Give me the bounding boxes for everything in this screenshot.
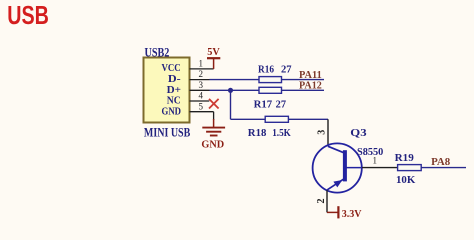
svg-text:GND: GND xyxy=(162,106,182,117)
svg-text:USB2: USB2 xyxy=(145,45,170,59)
svg-text:MINI USB: MINI USB xyxy=(144,125,190,139)
title USB xyxy=(7,0,49,30)
no-connect X on pin 4 xyxy=(209,99,219,109)
comment MINI USB xyxy=(144,125,190,139)
svg-text:S8550: S8550 xyxy=(357,147,383,158)
net label PA12 xyxy=(299,81,322,92)
pin 4 xyxy=(190,91,210,101)
resistor R18 xyxy=(248,116,292,139)
pin 2 xyxy=(190,69,210,79)
pin name NC xyxy=(167,96,181,107)
svg-text:5V: 5V xyxy=(207,47,220,58)
svg-text:2: 2 xyxy=(316,199,327,204)
wire R19 to PA8 xyxy=(421,167,466,169)
wire D- to R16 xyxy=(210,79,260,81)
resistor R19 xyxy=(395,153,422,186)
svg-text:R16: R16 xyxy=(258,65,274,76)
Q3 pin 2 (emitter lead) xyxy=(316,190,327,212)
svg-text:1.5K: 1.5K xyxy=(272,128,291,139)
svg-text:R17: R17 xyxy=(254,100,273,111)
designator Q3 xyxy=(350,127,367,139)
svg-text:PA12: PA12 xyxy=(299,81,322,92)
ground GND (connector pin 5) xyxy=(201,119,225,151)
wire R16 to PA11 xyxy=(282,79,325,81)
svg-text:10K: 10K xyxy=(396,175,416,186)
svg-text:1: 1 xyxy=(198,59,203,69)
junction on D+ xyxy=(228,88,233,93)
svg-text:3: 3 xyxy=(198,80,203,90)
pin 5 xyxy=(190,101,214,120)
pin name VCC xyxy=(162,63,181,74)
connector USB2 body xyxy=(144,58,190,123)
transistor Q3 xyxy=(313,143,362,192)
svg-text:R18: R18 xyxy=(248,128,267,139)
svg-text:R19: R19 xyxy=(395,153,414,164)
svg-text:USB: USB xyxy=(7,0,49,30)
pin name D+ xyxy=(167,85,182,96)
power 5V xyxy=(207,47,220,69)
svg-text:D+: D+ xyxy=(167,85,182,96)
svg-text:GND: GND xyxy=(201,140,224,151)
pin 1 xyxy=(190,59,214,69)
svg-text:2: 2 xyxy=(198,69,203,79)
svg-text:3.3V: 3.3V xyxy=(342,209,362,220)
svg-text:5: 5 xyxy=(198,101,203,111)
svg-text:27: 27 xyxy=(281,65,292,76)
pin name GND xyxy=(162,106,182,117)
wire R17 to PA12 xyxy=(282,89,325,91)
wire D+ to R17 xyxy=(210,89,260,91)
Q3 pin 1 (base lead) xyxy=(362,156,398,168)
Q3 pin 3 (collector lead) xyxy=(317,119,328,146)
wire R18 to Q3 collector xyxy=(288,118,328,120)
svg-text:D-: D- xyxy=(168,74,181,85)
svg-text:3: 3 xyxy=(317,130,328,135)
svg-text:PA11: PA11 xyxy=(299,70,322,81)
value S8550 xyxy=(357,147,383,158)
svg-text:NC: NC xyxy=(167,96,181,107)
pin 3 xyxy=(190,80,210,90)
svg-text:VCC: VCC xyxy=(162,63,181,74)
svg-text:PA8: PA8 xyxy=(431,157,450,168)
svg-text:Q3: Q3 xyxy=(350,127,367,139)
designator USB2 xyxy=(145,45,170,59)
wire junction down to R18 row xyxy=(231,90,266,119)
svg-text:1: 1 xyxy=(372,156,377,166)
resistor R17 xyxy=(254,87,287,110)
power 3.3V xyxy=(327,206,362,220)
svg-text:4: 4 xyxy=(198,91,203,101)
net label PA11 xyxy=(299,70,322,81)
pin name D- xyxy=(168,74,181,85)
svg-text:27: 27 xyxy=(276,100,286,111)
resistor R16 xyxy=(258,65,292,83)
net label PA8 xyxy=(431,157,450,168)
